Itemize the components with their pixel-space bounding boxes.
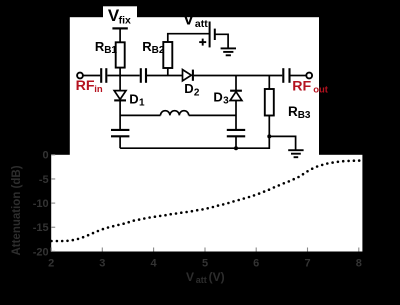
battery Vatt: [210, 22, 215, 48]
schematic panel: [70, 17, 319, 155]
RFout terminal: [306, 73, 312, 79]
capacitor C2: [141, 68, 146, 83]
svg-text:in: in: [94, 84, 103, 95]
svg-text:D: D: [213, 90, 222, 105]
resistor RB1: [116, 42, 125, 67]
plot area: [51, 155, 362, 252]
svg-text:5: 5: [202, 257, 208, 269]
svg-text:V: V: [183, 10, 195, 29]
svg-text:6: 6: [253, 257, 259, 269]
wire C3 to RFout: [291, 75, 307, 77]
RFin terminal: [77, 73, 83, 79]
Vfix label panel: [103, 6, 137, 18]
svg-text:att: att: [195, 18, 208, 30]
capacitor C1: [101, 68, 106, 83]
svg-text:fix: fix: [119, 14, 131, 26]
wire RB2 bottom to RF line: [167, 68, 169, 76]
svg-text:-10: -10: [33, 198, 49, 210]
label RFout: [292, 78, 329, 95]
svg-text:-20: -20: [33, 246, 49, 258]
svg-text:4: 4: [151, 257, 158, 269]
Vfix supply bar: [112, 28, 127, 42]
x axis ticks: [51, 248, 359, 252]
bottom rail: [120, 136, 269, 148]
diode D3: [230, 76, 242, 130]
svg-text:(V): (V): [209, 270, 225, 284]
svg-text:0: 0: [42, 150, 48, 162]
svg-text:2: 2: [48, 257, 54, 269]
resistor RB3: [265, 76, 274, 137]
wire node to ground bottom-right: [269, 136, 295, 150]
svg-text:-5: -5: [39, 174, 49, 186]
svg-text:B3: B3: [298, 110, 311, 121]
wire D2 to C3: [194, 75, 282, 77]
svg-text:7: 7: [304, 257, 310, 269]
x axis title Vatt (V): [186, 270, 225, 285]
svg-text:D: D: [129, 91, 138, 106]
svg-text:D: D: [184, 81, 193, 96]
svg-text:3: 3: [223, 96, 229, 107]
x tick labels: [48, 257, 362, 269]
diode D2: [183, 70, 193, 81]
svg-text:RF: RF: [292, 78, 311, 94]
wire C2 to D2: [147, 75, 183, 77]
capacitor C3: [283, 68, 289, 83]
svg-text:8: 8: [356, 257, 362, 269]
junction node RB3-ground: [267, 134, 271, 138]
svg-text:R: R: [288, 104, 298, 119]
svg-text:1: 1: [139, 98, 145, 109]
svg-text:3: 3: [99, 257, 105, 269]
svg-text:2: 2: [194, 87, 200, 98]
wire C4 to bottom rail: [119, 136, 121, 148]
attenuation curve dots: [50, 159, 360, 242]
wire RB1 bottom to RF line: [119, 68, 121, 76]
svg-text:out: out: [313, 84, 329, 95]
diode D1: [114, 76, 126, 130]
ground top-right: [221, 48, 236, 55]
wire RFin to C1: [83, 75, 100, 77]
svg-text:-15: -15: [33, 222, 49, 234]
svg-text:Attenuation (dB): Attenuation (dB): [11, 165, 23, 255]
svg-text:B2: B2: [152, 45, 165, 56]
svg-text:B1: B1: [104, 45, 117, 56]
capacitor C4 lower left: [111, 130, 129, 136]
wire C5 to bottom rail: [235, 136, 237, 148]
y tick labels: [33, 150, 49, 259]
wire RB2 top to battery: [168, 34, 210, 42]
label RFin: [76, 78, 103, 95]
svg-text:V: V: [186, 270, 194, 284]
wire battery to ground: [215, 34, 228, 48]
wire C1 to C2: [107, 75, 139, 77]
capacitor C5 lower right: [227, 130, 245, 136]
svg-text:RF: RF: [76, 78, 95, 94]
plus sign: [199, 39, 206, 46]
inductor L1: [120, 111, 236, 116]
junction node D3-rail: [234, 146, 238, 150]
y axis ticks: [51, 155, 55, 252]
ground bottom-right: [288, 150, 303, 157]
svg-text:att: att: [196, 275, 207, 285]
resistor RB2: [163, 42, 172, 68]
